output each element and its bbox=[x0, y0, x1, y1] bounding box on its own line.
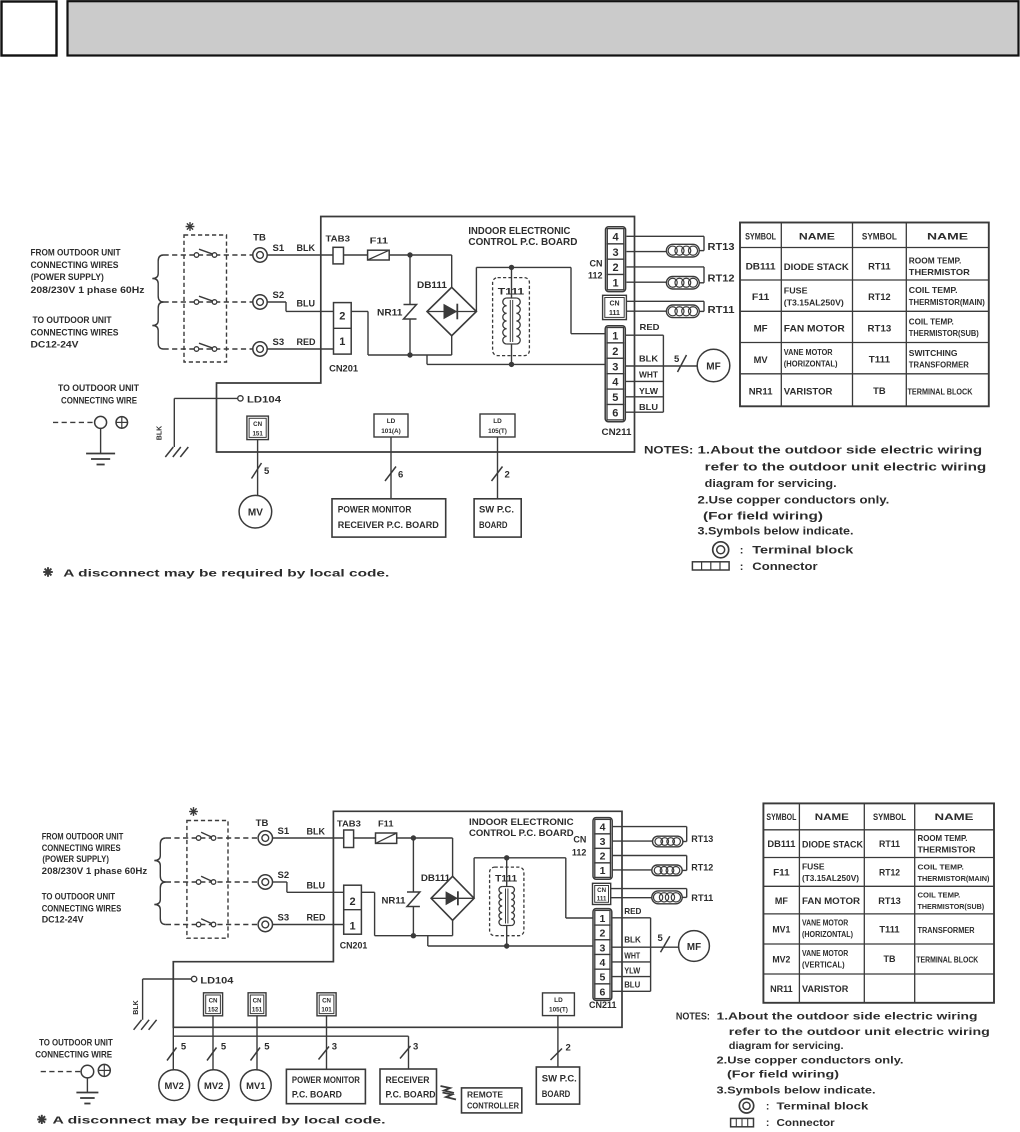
svg-text:THERMISTOR(SUB): THERMISTOR(SUB) bbox=[909, 329, 979, 338]
svg-text:TO OUTDOOR UNIT: TO OUTDOOR UNIT bbox=[58, 382, 139, 393]
svg-text:4: 4 bbox=[599, 957, 605, 969]
svg-text:CONNECTING WIRES: CONNECTING WIRES bbox=[31, 260, 120, 271]
svg-text:REMOTE: REMOTE bbox=[467, 1090, 503, 1100]
svg-text:TB: TB bbox=[884, 954, 896, 964]
svg-text:NAME: NAME bbox=[927, 232, 968, 242]
svg-text:COIL TEMP.: COIL TEMP. bbox=[918, 862, 964, 871]
svg-text:VARISTOR: VARISTOR bbox=[802, 984, 849, 994]
D2 legend connector symbol bbox=[731, 1117, 835, 1129]
D2 three-wire slash receiver bbox=[400, 1042, 418, 1059]
D2 wire lower rail to CN211 pin3 side bbox=[428, 945, 593, 947]
svg-text:INDOOR ELECTRONIC: INDOOR ELECTRONIC bbox=[469, 817, 574, 828]
svg-text:CN201: CN201 bbox=[329, 364, 358, 374]
svg-text:THERMISTOR(SUB): THERMISTOR(SUB) bbox=[918, 902, 985, 911]
D2 notes text bbox=[676, 1010, 990, 1096]
svg-text:CN201: CN201 bbox=[340, 941, 368, 951]
svg-text:NR11: NR11 bbox=[770, 984, 793, 994]
svg-text:BLU: BLU bbox=[639, 402, 658, 412]
svg-text:RED: RED bbox=[297, 337, 317, 347]
svg-text:MV: MV bbox=[248, 508, 263, 519]
D1 switch pole 2 bbox=[194, 296, 217, 304]
svg-text:COIL TEMP.: COIL TEMP. bbox=[918, 891, 961, 900]
D1 brace upper (power supply wires) bbox=[152, 255, 163, 302]
D1 wire L2 dashed (S2 field wiring) bbox=[164, 301, 253, 303]
svg-text:MF: MF bbox=[706, 362, 720, 373]
D2 node T111 top (junction) bbox=[504, 855, 509, 860]
D2 vane motor MV2 no.2 bbox=[198, 1070, 229, 1101]
svg-text:LD: LD bbox=[554, 997, 563, 1004]
svg-text:TO OUTDOOR UNIT: TO OUTDOOR UNIT bbox=[33, 315, 112, 326]
svg-text:5: 5 bbox=[221, 1042, 227, 1053]
D2 wire TAB3-F11 bbox=[354, 837, 376, 839]
D2 wire branch to receiver board bbox=[408, 1036, 410, 1069]
D1 wire node1-DB111 AC1 bbox=[451, 255, 453, 287]
svg-text:4: 4 bbox=[612, 377, 619, 389]
D1 wire LD101(A) to power monitor board bbox=[390, 437, 392, 499]
svg-text:FUSE: FUSE bbox=[802, 863, 825, 872]
D2 asterisk mark above switch box bbox=[189, 807, 198, 816]
D1 wire CN211 pin1 stub (RED) bbox=[626, 322, 664, 335]
svg-text:2: 2 bbox=[599, 928, 605, 940]
D2 terminal S2 bbox=[258, 870, 289, 889]
D2 wire DB111 bottom to rail bbox=[452, 920, 454, 935]
svg-text:WHT: WHT bbox=[624, 951, 640, 960]
svg-text:2: 2 bbox=[505, 470, 510, 481]
svg-text:YLW: YLW bbox=[639, 386, 658, 396]
svg-text:S1: S1 bbox=[273, 243, 285, 254]
svg-text:NR11: NR11 bbox=[382, 896, 406, 906]
svg-text:F11: F11 bbox=[773, 868, 790, 878]
svg-text:208/230V 1 phase 60Hz: 208/230V 1 phase 60Hz bbox=[31, 285, 145, 296]
svg-text:RECEIVER P.C. BOARD: RECEIVER P.C. BOARD bbox=[338, 520, 439, 531]
D1 footnote: disconnect required bbox=[43, 567, 389, 579]
svg-text:3: 3 bbox=[612, 247, 618, 259]
D2 thermistor RT11 bbox=[652, 891, 714, 904]
svg-text:RT13: RT13 bbox=[708, 242, 735, 253]
svg-text:LD: LD bbox=[387, 418, 396, 425]
svg-text:NOTES:: NOTES: bbox=[644, 445, 693, 457]
svg-text:MF: MF bbox=[687, 942, 701, 953]
svg-text:F11: F11 bbox=[752, 292, 770, 303]
D2 five-wire slash to MF bbox=[658, 933, 670, 952]
D1 wire LD105(T) to SW board bbox=[497, 437, 499, 499]
D1 connector CN201 bbox=[329, 303, 358, 374]
D2 wire CN112 pin3 to RT13 bbox=[613, 840, 653, 842]
D1 disconnect switch dashed enclosure bbox=[184, 235, 227, 362]
svg-text:DB111: DB111 bbox=[746, 262, 777, 273]
svg-text:S1: S1 bbox=[278, 826, 290, 837]
svg-text:Connector: Connector bbox=[777, 1117, 835, 1129]
D2 terminal block TB label bbox=[256, 818, 269, 829]
svg-text:5: 5 bbox=[674, 354, 680, 365]
D1 connector CN151 bbox=[247, 416, 269, 440]
D1 switch pole 3 bbox=[194, 343, 217, 351]
D1 wire DB111 bottom to rail bbox=[451, 336, 453, 355]
svg-text:P.C. BOARD: P.C. BOARD bbox=[292, 1090, 342, 1100]
svg-text:151: 151 bbox=[252, 1007, 263, 1014]
D1 power monitor receiver P.C. board bbox=[332, 499, 446, 537]
svg-text:TO OUTDOOR UNIT: TO OUTDOOR UNIT bbox=[42, 892, 116, 903]
svg-text:TB: TB bbox=[253, 233, 266, 244]
svg-text:RED: RED bbox=[307, 913, 327, 923]
D2 connector CN211 bbox=[589, 909, 617, 1010]
D2 remote controller bbox=[462, 1088, 522, 1113]
D1 connector CN211 bbox=[602, 326, 633, 438]
D2 connector CN101 bbox=[317, 993, 336, 1016]
svg-text:POWER MONITOR: POWER MONITOR bbox=[338, 505, 412, 516]
D1 wire lower rail to CN211 pin3 side bbox=[427, 363, 605, 365]
D1 terminal S3 bbox=[253, 337, 284, 356]
svg-text:CONNECTING WIRE: CONNECTING WIRE bbox=[61, 395, 137, 406]
D1 label text: from/to outdoor unit connecting wires bbox=[31, 248, 145, 351]
svg-text:2: 2 bbox=[339, 310, 345, 322]
svg-text:YLW: YLW bbox=[624, 966, 640, 975]
svg-text:CN211: CN211 bbox=[589, 1000, 617, 1010]
D2 switch pole 3 bbox=[196, 919, 216, 927]
svg-text:RT11: RT11 bbox=[708, 305, 735, 316]
svg-text:1: 1 bbox=[600, 865, 606, 877]
svg-text:ROOM TEMP.: ROOM TEMP. bbox=[909, 256, 962, 266]
svg-text::: : bbox=[740, 561, 744, 573]
D2 fuse F11 bbox=[376, 819, 397, 844]
D2 wire CN152 to MV2 no.2 bbox=[212, 1016, 214, 1070]
svg-text:POWER MONITOR: POWER MONITOR bbox=[292, 1075, 361, 1085]
svg-text:RT11: RT11 bbox=[691, 893, 713, 903]
D2 wire CN211 pin5 stub (YLW) bbox=[612, 966, 651, 976]
svg-text:F11: F11 bbox=[378, 819, 394, 829]
svg-text:NAME: NAME bbox=[815, 812, 849, 822]
D1 terminal block TB label bbox=[253, 233, 266, 244]
svg-text:4: 4 bbox=[612, 232, 619, 244]
D2 chassis ground (hatched) bbox=[134, 1020, 157, 1030]
D1 terminal S2 bbox=[253, 290, 284, 309]
D1 chassis ground (hatched) bbox=[165, 447, 188, 457]
svg-text:RED: RED bbox=[640, 322, 660, 332]
D2 connector CN152 bbox=[204, 993, 223, 1016]
D1 thermistor RT12 bbox=[666, 274, 734, 290]
svg-text:diagram for servicing.: diagram for servicing. bbox=[705, 478, 837, 490]
D2 transformer T111 bbox=[490, 858, 524, 946]
D1 to-outdoor-unit connecting wire label bbox=[58, 382, 139, 406]
svg-text:RT12: RT12 bbox=[708, 274, 735, 285]
svg-text:A disconnect may be required b: A disconnect may be required by local co… bbox=[63, 569, 389, 580]
D1 wire S1-TAB3 (BLK) bbox=[267, 243, 333, 255]
svg-text:CN: CN bbox=[573, 835, 586, 845]
D1 wire CN111 upper to RT11 bbox=[626, 301, 704, 311]
D2 two-wire slash SW board bbox=[551, 1043, 571, 1061]
svg-text:DIODE STACK: DIODE STACK bbox=[784, 262, 849, 273]
svg-text:S2: S2 bbox=[273, 290, 285, 301]
D1 CN211 bundle bus bbox=[662, 335, 664, 412]
svg-text:2.Use copper conductors only.: 2.Use copper conductors only. bbox=[717, 1054, 904, 1066]
D2 legend terminal block symbol bbox=[739, 1099, 868, 1113]
svg-text:DB111: DB111 bbox=[767, 839, 795, 849]
D1 thermistor RT11 bbox=[666, 305, 734, 318]
svg-text:CONTROLLER: CONTROLLER bbox=[467, 1101, 520, 1111]
D1 legend terminal block symbol bbox=[713, 542, 855, 558]
svg-text:BLK: BLK bbox=[624, 936, 641, 945]
D2 wire L3 dashed (S3 field wiring) bbox=[166, 924, 258, 926]
D2 wire to earth ground bbox=[86, 1078, 88, 1093]
D2 brace lower (DC12-24V wires) bbox=[154, 882, 166, 925]
D2 wire L2 dashed (S2 field wiring) bbox=[166, 881, 258, 883]
D1 wire TAB3-F11 bbox=[344, 254, 368, 256]
D2 CN211 bundle bus bbox=[650, 918, 652, 992]
D2 five-wire slash MV1 bbox=[251, 1042, 271, 1061]
svg-text:1: 1 bbox=[339, 336, 345, 348]
svg-text:P.C. BOARD: P.C. BOARD bbox=[386, 1090, 436, 1100]
D2 node after F11 (junction) bbox=[411, 835, 416, 840]
D1 asterisk mark above switch box bbox=[186, 222, 195, 231]
D2 wire node1-DB111 AC1 bbox=[452, 838, 454, 876]
svg-text:2: 2 bbox=[612, 262, 618, 274]
D2 three-wire slash power monitor bbox=[319, 1042, 338, 1060]
svg-text:3: 3 bbox=[599, 942, 605, 954]
svg-text:COIL TEMP.: COIL TEMP. bbox=[909, 286, 958, 295]
svg-text:2: 2 bbox=[612, 346, 618, 358]
svg-text:5: 5 bbox=[599, 972, 605, 984]
svg-text:101(A): 101(A) bbox=[381, 428, 401, 435]
svg-text:THERMISTOR(MAIN): THERMISTOR(MAIN) bbox=[918, 874, 990, 883]
svg-text:(For field wiring): (For field wiring) bbox=[727, 1069, 839, 1081]
svg-text:diagram for servicing.: diagram for servicing. bbox=[729, 1040, 844, 1052]
D1 wire F11-node1 bbox=[389, 254, 452, 256]
svg-text:CONTROL P.C. BOARD: CONTROL P.C. BOARD bbox=[469, 828, 574, 839]
D2 wire CN112 pin2 to RT12 bbox=[613, 856, 687, 871]
svg-text:1: 1 bbox=[349, 921, 355, 933]
svg-text:S3: S3 bbox=[278, 913, 290, 924]
D2 earth screw terminal bbox=[98, 1064, 110, 1076]
svg-text:MV1: MV1 bbox=[246, 1080, 265, 1091]
D2 lead box LD105(T) bbox=[543, 993, 575, 1016]
svg-text:TRANSFORMER: TRANSFORMER bbox=[918, 925, 976, 935]
svg-text:MV1: MV1 bbox=[772, 925, 790, 935]
svg-text:TERMINAL BLOCK: TERMINAL BLOCK bbox=[916, 956, 978, 965]
D1 lead box LD101(A) bbox=[374, 414, 408, 437]
svg-text:BLU: BLU bbox=[307, 881, 326, 891]
D1 wire DB111 right vertex to top rail bbox=[476, 267, 571, 311]
svg-text:CN: CN bbox=[590, 259, 603, 269]
svg-text:3.Symbols below indicate.: 3.Symbols below indicate. bbox=[698, 526, 854, 538]
svg-text:FROM OUTDOOR UNIT: FROM OUTDOOR UNIT bbox=[42, 832, 124, 843]
svg-text:112: 112 bbox=[572, 848, 587, 858]
svg-text:2: 2 bbox=[349, 896, 355, 908]
D1 brace lower (DC12-24V wires) bbox=[152, 302, 163, 349]
D2 wire CN211 pin3 to fan motor (BLK) bbox=[612, 936, 679, 948]
svg-text:TO OUTDOOR UNIT: TO OUTDOOR UNIT bbox=[39, 1038, 113, 1048]
svg-text:refer to the outdoor unit elec: refer to the outdoor unit electric wirin… bbox=[729, 1026, 990, 1038]
svg-text:T111: T111 bbox=[879, 925, 899, 935]
svg-text:TRANSFORMER: TRANSFORMER bbox=[909, 360, 970, 370]
svg-text:152: 152 bbox=[208, 1007, 219, 1014]
svg-text:DIODE STACK: DIODE STACK bbox=[802, 839, 863, 849]
svg-text:(VERTICAL): (VERTICAL) bbox=[802, 960, 845, 969]
svg-text:RECEIVER: RECEIVER bbox=[386, 1075, 431, 1085]
svg-text:5: 5 bbox=[264, 466, 270, 477]
svg-text:4: 4 bbox=[600, 822, 606, 834]
D2 brace upper (power supply wires) bbox=[154, 838, 166, 882]
D2 wire board corner to MV2 no.1 bbox=[172, 1027, 174, 1069]
svg-text:BOARD: BOARD bbox=[479, 520, 508, 531]
svg-text:SW P.C.: SW P.C. bbox=[542, 1073, 577, 1084]
svg-text:MV2: MV2 bbox=[165, 1080, 184, 1091]
svg-text:6: 6 bbox=[612, 408, 618, 420]
svg-text:VARISTOR: VARISTOR bbox=[784, 387, 833, 398]
svg-text:BLK: BLK bbox=[157, 426, 164, 440]
svg-text:VANE MOTOR: VANE MOTOR bbox=[802, 949, 849, 958]
svg-text:MF: MF bbox=[754, 324, 768, 335]
svg-text:DB111: DB111 bbox=[417, 280, 447, 290]
svg-text:BLU: BLU bbox=[297, 299, 316, 309]
svg-text:CN: CN bbox=[253, 421, 262, 428]
svg-text:6: 6 bbox=[599, 986, 605, 998]
D1 wire S3-CN201 pin1 (RED) bbox=[267, 337, 333, 349]
svg-text:105(T): 105(T) bbox=[488, 428, 507, 435]
D1 earth ground symbol bbox=[86, 454, 115, 465]
D2 wire CN151 to MV1 bbox=[256, 1016, 258, 1070]
D2 label text: from/to outdoor unit connecting wires bbox=[42, 832, 148, 926]
svg-text:105(T): 105(T) bbox=[549, 1007, 568, 1014]
svg-text:(For field wiring): (For field wiring) bbox=[703, 511, 823, 523]
svg-text:SW P.C.: SW P.C. bbox=[479, 505, 514, 516]
D2 vane motor MV2 no.1 bbox=[159, 1070, 190, 1101]
D2 wire CN211 pin1 stub (RED) bbox=[612, 907, 651, 918]
D1 SW P.C. board bbox=[474, 499, 521, 537]
D2 node T111 bottom (junction) bbox=[504, 943, 509, 948]
D2 wireless link arrows bbox=[441, 1086, 457, 1100]
D1 fuse F11 bbox=[368, 236, 390, 261]
svg-text:FAN MOTOR: FAN MOTOR bbox=[784, 324, 845, 335]
svg-text:A disconnect may be required b: A disconnect may be required by local co… bbox=[53, 1116, 386, 1127]
svg-text::: : bbox=[766, 1101, 770, 1113]
svg-text:(POWER SUPPLY): (POWER SUPPLY) bbox=[42, 854, 109, 865]
D1 lead LD104 bbox=[174, 394, 282, 405]
svg-text:NAME: NAME bbox=[799, 232, 835, 242]
D1 node NR11 bottom (junction) bbox=[407, 352, 412, 357]
svg-text:RT12: RT12 bbox=[879, 868, 900, 878]
D2 connector CN111 bbox=[593, 883, 611, 904]
D1 varistor NR11 bbox=[377, 255, 417, 355]
svg-text:(T3.15AL250V): (T3.15AL250V) bbox=[802, 874, 859, 883]
svg-text:CN: CN bbox=[609, 301, 619, 308]
D2 thermistor RT13 bbox=[653, 834, 714, 847]
D2 receiver P.C. board bbox=[380, 1069, 437, 1104]
D1 wire CN151 to MV bbox=[257, 440, 259, 496]
svg-text:FUSE: FUSE bbox=[784, 287, 808, 296]
svg-text:111: 111 bbox=[597, 896, 607, 903]
svg-text:MF: MF bbox=[775, 896, 788, 906]
D1 switching transformer T111 bbox=[493, 267, 530, 364]
svg-text:TAB3: TAB3 bbox=[337, 819, 361, 829]
svg-text:SYMBOL: SYMBOL bbox=[745, 232, 776, 242]
D2 to-outdoor-unit connecting wire label bbox=[35, 1038, 113, 1060]
D1 node T111 top (junction) bbox=[509, 265, 514, 270]
svg-text:CONTROL P.C. BOARD: CONTROL P.C. BOARD bbox=[468, 237, 577, 248]
svg-text:TB: TB bbox=[256, 818, 269, 829]
D1 wire CN211 pin4 stub (WHT) bbox=[626, 370, 664, 382]
svg-text:Terminal block: Terminal block bbox=[752, 545, 854, 557]
gray header bar bbox=[68, 1, 1019, 55]
D2 switch pole 2 bbox=[196, 876, 216, 884]
D1 wire CN111 lower to RT11 bbox=[626, 310, 666, 312]
D1 wire to earth ground bbox=[100, 428, 102, 453]
D2 terminal S3 bbox=[258, 913, 289, 932]
svg-text:BLU: BLU bbox=[624, 981, 640, 990]
D2 thermistor RT12 bbox=[652, 863, 714, 876]
svg-text:RT11: RT11 bbox=[879, 839, 900, 849]
D1 vane motor MV bbox=[239, 495, 272, 528]
D1 wire top rail down to CN211 pin1 bbox=[571, 267, 605, 333]
D1 thermistor RT13 bbox=[666, 242, 734, 257]
D2 wire distribution line below board bbox=[173, 1035, 408, 1037]
D1 diode stack DB111 bbox=[417, 280, 476, 336]
svg-text:WHT: WHT bbox=[639, 370, 659, 380]
svg-text:DC12-24V: DC12-24V bbox=[31, 340, 80, 351]
D2 power monitor P.C. board bbox=[286, 1069, 365, 1103]
svg-text:3: 3 bbox=[332, 1042, 337, 1053]
svg-text:CN: CN bbox=[597, 887, 606, 894]
svg-text:TB: TB bbox=[873, 386, 886, 397]
D2 wire CN112 pin4 to RT13 bbox=[613, 827, 687, 842]
svg-text:COIL TEMP.: COIL TEMP. bbox=[909, 318, 954, 327]
svg-text:CONNECTING WIRES: CONNECTING WIRES bbox=[42, 904, 122, 915]
svg-text:RT12: RT12 bbox=[691, 863, 713, 873]
D1 fan motor MF bbox=[697, 349, 730, 382]
svg-text:SYMBOL: SYMBOL bbox=[862, 232, 897, 242]
D2 node NR11 bottom (junction) bbox=[411, 933, 416, 938]
D2 indoor electronic control P.C. board outline bbox=[173, 811, 622, 1027]
svg-text:LD104: LD104 bbox=[200, 975, 234, 986]
svg-text:F11: F11 bbox=[370, 236, 389, 246]
D1 wire CN112 pin1 to RT12 bbox=[627, 281, 667, 283]
D2 diode stack DB111 bbox=[421, 873, 474, 920]
D2 wire S3-CN201 pin1 (RED) bbox=[273, 913, 344, 925]
svg-text:2: 2 bbox=[600, 851, 606, 863]
D2 wire CN111 upper to RT11 bbox=[611, 889, 687, 898]
D1 wire CN201 pin2 to DC rail bbox=[351, 311, 452, 355]
D2 terminal S1 bbox=[258, 826, 290, 845]
svg-text:5: 5 bbox=[612, 392, 618, 404]
svg-text:3: 3 bbox=[612, 361, 618, 373]
D2 wire CN101 to power monitor board bbox=[326, 1016, 328, 1070]
D2 footnote: disconnect required bbox=[37, 1115, 385, 1127]
D2 earth wire dashed bbox=[41, 1071, 81, 1073]
svg-text:1: 1 bbox=[612, 277, 618, 289]
svg-text:RT13: RT13 bbox=[868, 324, 892, 335]
svg-text:MV: MV bbox=[754, 355, 769, 366]
D2 connector CN151 bbox=[248, 993, 266, 1016]
D2 five-wire slash MV2 no.1 bbox=[167, 1042, 187, 1061]
D2 wire CN201 pin2 to DC rail bbox=[361, 892, 452, 935]
svg-text:CONNECTING WIRE: CONNECTING WIRE bbox=[35, 1049, 112, 1059]
svg-text:(HORIZONTAL): (HORIZONTAL) bbox=[784, 360, 838, 369]
svg-text:RT11: RT11 bbox=[868, 262, 891, 273]
D1 two-wire slash bbox=[492, 467, 510, 482]
D1 wire CN112 pin2 to RT12 bbox=[627, 267, 705, 283]
svg-text:2: 2 bbox=[566, 1043, 571, 1054]
D2 wire S2-CN201 pin2 (BLU) bbox=[273, 881, 344, 893]
D2 wire L1 dashed (S1 field wiring) bbox=[166, 837, 258, 839]
svg-text:5: 5 bbox=[264, 1042, 270, 1053]
D1 wire rail jog down bbox=[426, 355, 428, 364]
svg-text:NOTES:: NOTES: bbox=[676, 1011, 710, 1022]
D2 connector CN112 bbox=[572, 818, 612, 880]
svg-text:MV2: MV2 bbox=[772, 955, 790, 965]
svg-text:S3: S3 bbox=[273, 337, 285, 348]
svg-text:3: 3 bbox=[413, 1042, 418, 1053]
svg-text:1.About the outdoor side elect: 1.About the outdoor side electric wiring bbox=[717, 1010, 978, 1022]
svg-text:NR11: NR11 bbox=[749, 387, 774, 398]
